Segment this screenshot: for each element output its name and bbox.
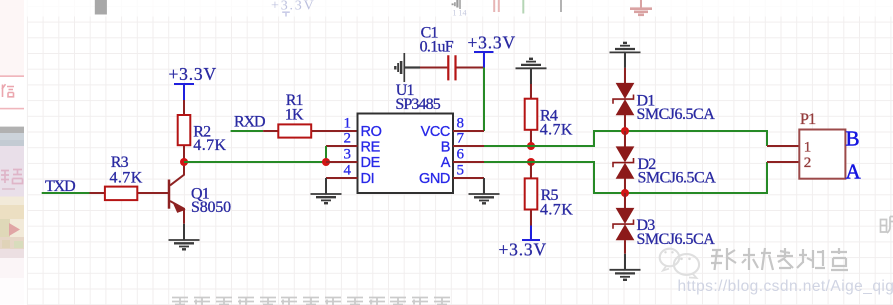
junction (D2/D3 on A net): [621, 189, 629, 197]
svg-text:DE: DE: [361, 155, 381, 171]
pin 8 VCC: [421, 115, 484, 140]
scrollbar thumb (top): [95, 0, 107, 15]
svg-text:4.7K: 4.7K: [193, 137, 226, 154]
svg-text:B: B: [846, 127, 860, 151]
svg-text:S8050: S8050: [191, 199, 231, 216]
svg-text:4.7K: 4.7K: [540, 121, 573, 138]
resistor R2: [178, 100, 191, 162]
diode D3: [613, 193, 634, 254]
junction (R2 / Q1 collector / DE wire): [180, 158, 188, 166]
pin 2 RE: [326, 130, 381, 155]
ghost wire (cut, x~523): [522, 0, 524, 14]
junction (R5 on A net): [527, 158, 535, 166]
svg-text:+3.3V: +3.3V: [468, 32, 516, 52]
watermark text 科技老顽童 (fake glyph strokes): [711, 248, 848, 270]
svg-text:RXD: RXD: [234, 114, 265, 131]
power +3.3V (above R2): [169, 64, 217, 100]
left sidebar strip (page behind schematic): [0, 0, 24, 305]
top faded strip overlay: [27, 0, 893, 17]
svg-text:4.7K: 4.7K: [110, 170, 143, 187]
ghost power +3.3V (top cut): [271, 0, 316, 16]
svg-text:A: A: [441, 155, 451, 171]
svg-text:RO: RO: [361, 124, 382, 140]
wire RE to DE: [325, 146, 327, 162]
pin 4 DI: [326, 162, 374, 187]
svg-text:GND: GND: [419, 171, 450, 187]
ghost ground (cut, x~641, red): [630, 0, 652, 15]
wire B net: [484, 131, 767, 146]
svg-text:2: 2: [804, 155, 812, 171]
sidebar icon text 信 (cut): [2, 84, 14, 97]
diode D2: [613, 131, 634, 193]
junction (R4 on B net): [527, 142, 535, 150]
svg-text:1 14: 1 14: [453, 9, 467, 18]
ground (below D3): [610, 254, 641, 280]
ghost ground (cut, x~456): [453, 0, 460, 9]
ghost capacitor (cut, x~496): [494, 0, 499, 12]
watermark char 明 (right edge): [881, 217, 893, 234]
pin 6 A: [441, 146, 484, 171]
power +3.3V (top, above VCC): [468, 32, 516, 67]
power +3.3V (below R5): [499, 226, 547, 260]
wire DE net: [184, 161, 326, 163]
svg-text:https://blog.csdn.net/Aige_qig: https://blog.csdn.net/Aige_qig: [678, 278, 893, 295]
ground (left of C1, rotated): [395, 53, 420, 82]
svg-text:1: 1: [804, 139, 812, 155]
ground (above R4): [516, 59, 547, 84]
wire TXD: [42, 192, 90, 194]
svg-text:+3.3V: +3.3V: [499, 240, 547, 260]
svg-text:2: 2: [344, 130, 352, 146]
svg-text:SMCJ6.5CA: SMCJ6.5CA: [637, 231, 716, 248]
svg-text:SMCJ6.5CA: SMCJ6.5CA: [637, 106, 716, 123]
junction (RE/DE tie): [322, 158, 330, 166]
ground (right of pin 5): [469, 178, 500, 203]
svg-text:B: B: [441, 140, 450, 156]
svg-text:DI: DI: [361, 171, 375, 187]
svg-text:+3.3V: +3.3V: [271, 0, 316, 14]
ground (above D1): [610, 43, 641, 68]
bottom clipped text row (faded): [172, 298, 450, 305]
svg-text:+3.3V: +3.3V: [169, 64, 217, 84]
junction (D1/D2 on B net): [621, 127, 629, 135]
wire A net: [484, 162, 767, 193]
transistor Q1: [169, 162, 185, 224]
ground (below pin 4): [311, 178, 342, 203]
svg-text:8: 8: [457, 115, 465, 131]
capacitor C1: [420, 55, 484, 80]
svg-text:A: A: [846, 160, 862, 184]
svg-text:VCC: VCC: [421, 124, 450, 140]
op-amp U1 SP3485 body: [358, 114, 454, 194]
watermark wechat icon ghost: [660, 249, 699, 278]
wire RXD: [231, 130, 264, 132]
connector P1: [767, 130, 845, 179]
pin 7 B: [441, 130, 484, 155]
svg-text:1K: 1K: [285, 106, 304, 123]
svg-text:4: 4: [344, 162, 352, 178]
svg-text:0.1uF: 0.1uF: [420, 38, 454, 55]
svg-text:1: 1: [344, 115, 352, 131]
svg-text:7: 7: [457, 130, 465, 146]
svg-text:4.7K: 4.7K: [540, 201, 573, 218]
svg-text:6: 6: [457, 146, 465, 162]
pin 1 RO: [344, 115, 382, 140]
svg-text:P1: P1: [800, 111, 816, 128]
diode D1: [613, 68, 634, 131]
resistor R5: [525, 162, 538, 226]
ghost wire (cut, x~561): [560, 0, 562, 12]
svg-text:5: 5: [457, 162, 465, 178]
sidebar ad text 解答合 (cut): [1, 170, 23, 184]
wire VCC net (C1 to pin 8): [483, 68, 485, 132]
pin 5 GND: [419, 162, 484, 187]
resistor R1: [263, 124, 357, 137]
pin 3 DE: [326, 146, 381, 171]
svg-text:3: 3: [344, 146, 352, 162]
sidebar thumbnail image (washed): [0, 197, 24, 259]
resistor R4: [525, 84, 538, 146]
svg-text:RE: RE: [361, 140, 381, 156]
svg-text:SMCJ6.5CA: SMCJ6.5CA: [638, 170, 717, 187]
svg-text:SP3485: SP3485: [395, 96, 440, 113]
ground (below Q1): [169, 224, 200, 250]
resistor R3: [90, 187, 170, 201]
